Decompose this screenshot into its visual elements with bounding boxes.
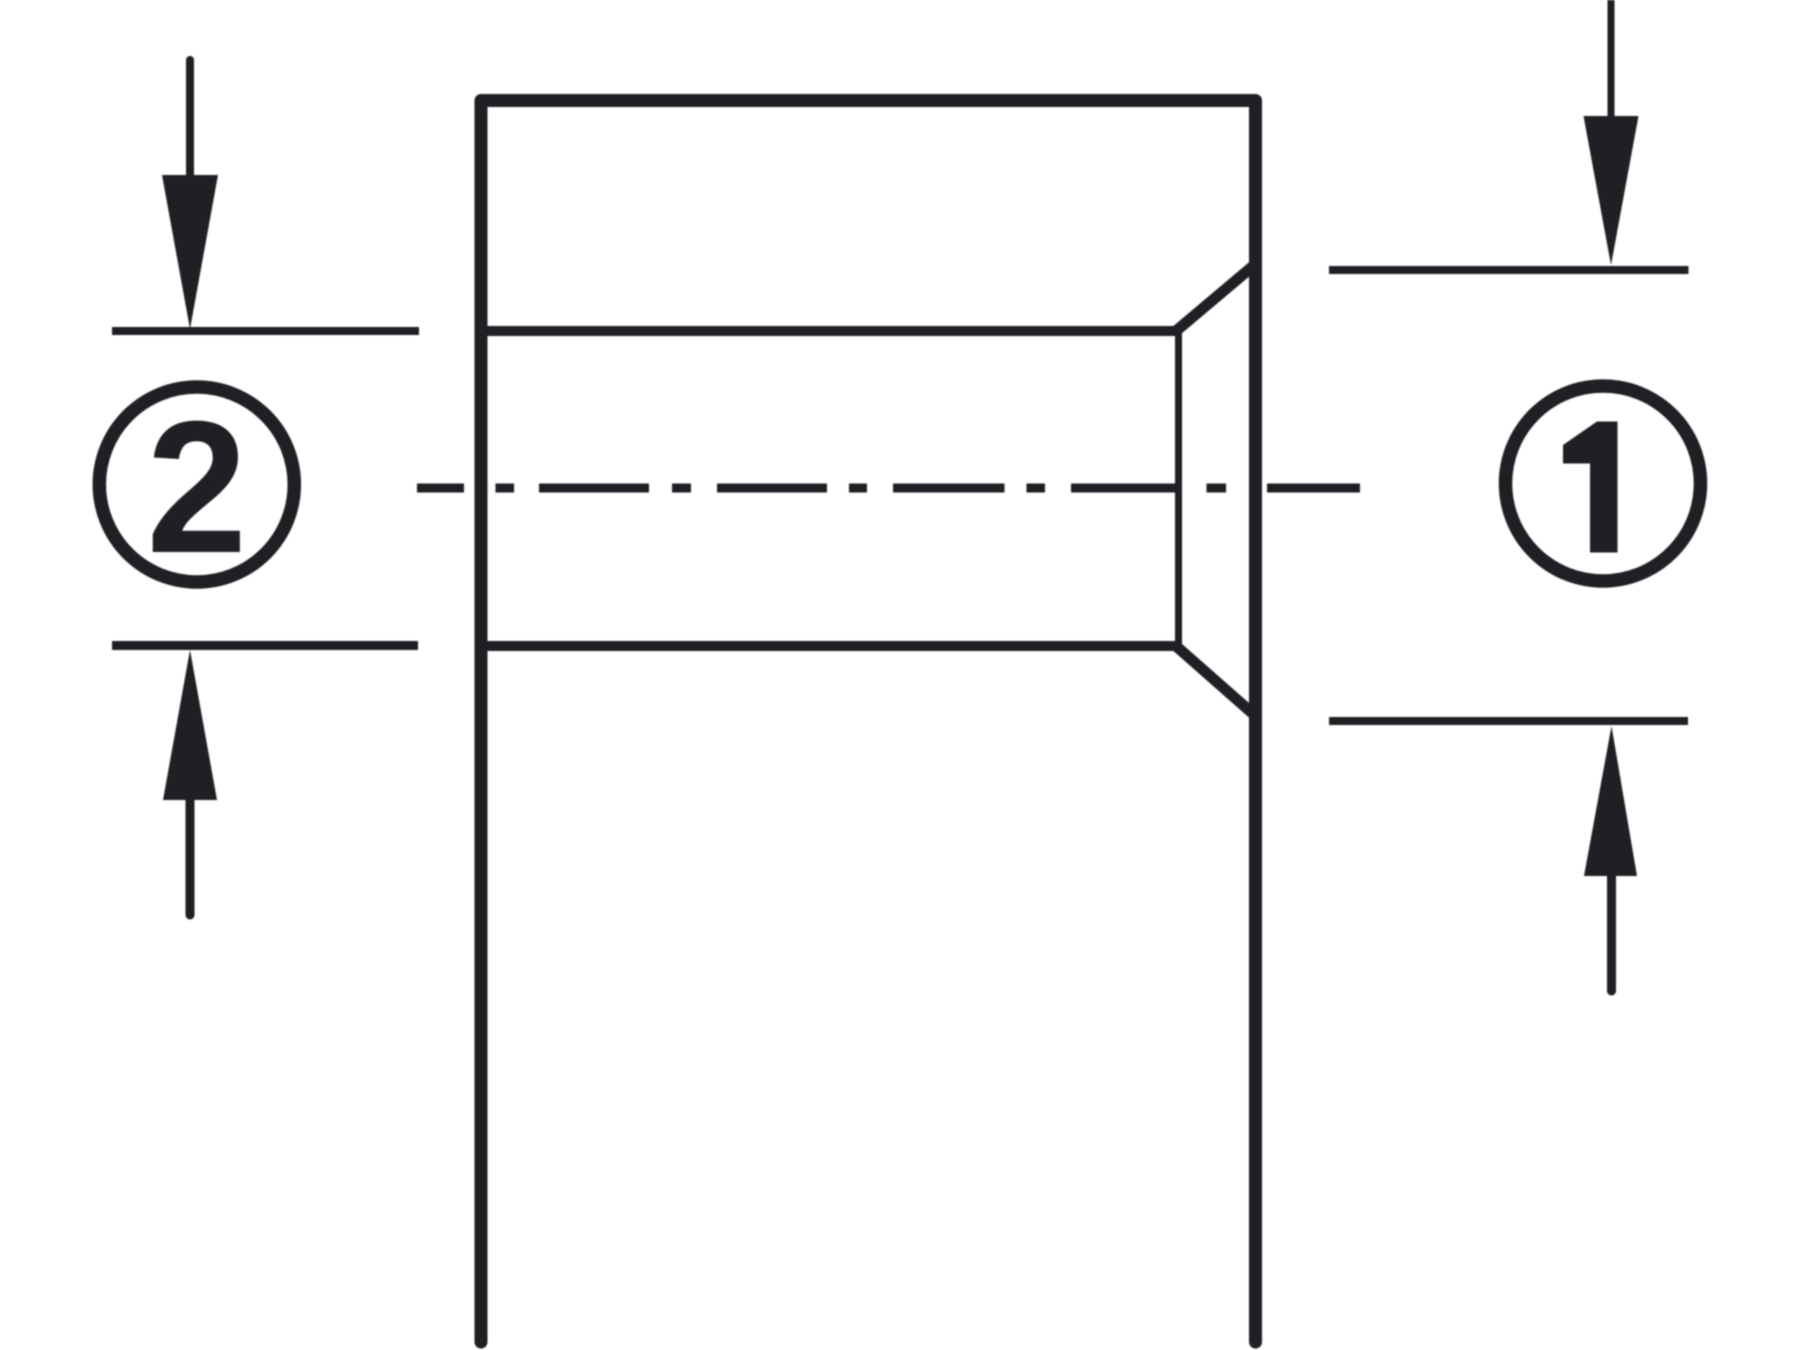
countersink bottom flank (1176, 646, 1256, 716)
bore top line (481, 326, 1176, 336)
dim line left top (112, 327, 419, 335)
countersink edge (1175, 331, 1182, 646)
dim line right top (1329, 266, 1689, 274)
svg-text:2: 2 (147, 383, 248, 593)
arrow right up head (1584, 726, 1637, 876)
arrow right up stem (1607, 876, 1616, 991)
bore bottom line (481, 641, 1176, 651)
arrow left up head (163, 650, 217, 800)
dim line left bottom (112, 641, 418, 650)
arrow right down stem (1608, 0, 1615, 120)
arrow left up stem (186, 800, 195, 915)
circle 2 ring (99, 387, 294, 582)
panel outline (481, 101, 1256, 1343)
dim line right bottom (1329, 717, 1688, 725)
arrow right down head (1584, 116, 1639, 265)
arrow left down head (162, 175, 218, 329)
circle 1 ring (1506, 386, 1701, 581)
arrow left down stem (186, 60, 194, 200)
countersink top flank (1176, 264, 1256, 331)
centerline (417, 484, 1360, 493)
label digit 1 (1563, 422, 1618, 553)
